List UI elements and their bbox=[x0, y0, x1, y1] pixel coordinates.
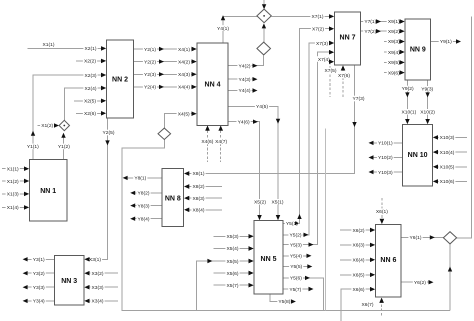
wire stub X5(3) bbox=[214, 234, 254, 241]
svg-text:X10(1): X10(1) bbox=[402, 110, 417, 116]
svg-text:NN 7: NN 7 bbox=[340, 35, 356, 42]
wire stub X3(3) bbox=[85, 284, 119, 291]
svg-text:X1(1): X1(1) bbox=[43, 42, 55, 48]
wire faint mid vertical bbox=[325, 129, 327, 311]
wire stub Y5(7) bbox=[283, 286, 314, 293]
block NN 3 bbox=[55, 256, 85, 306]
svg-text:X1(2): X1(2) bbox=[41, 123, 53, 129]
svg-text:X4(4): X4(4) bbox=[178, 85, 190, 91]
wire Y5(6) to bottom bus bbox=[283, 275, 324, 311]
wire output Y6(2) bbox=[401, 279, 433, 286]
wire Y2(3) to X4(3) bbox=[134, 72, 197, 79]
port arrows NN 10 inputs bbox=[405, 119, 438, 184]
wire stub X10(6) bbox=[433, 179, 467, 186]
svg-text:NN 4: NN 4 bbox=[205, 82, 221, 89]
node diamond C bbox=[59, 120, 69, 130]
svg-text:Y8(4): Y8(4) bbox=[138, 216, 150, 222]
wire Y6(1) to diamond F bbox=[401, 235, 443, 242]
svg-text:Y5(7): Y5(7) bbox=[289, 287, 301, 293]
svg-text:Y7(1): Y7(1) bbox=[364, 19, 376, 25]
wire stub X2(6) bbox=[76, 111, 106, 118]
wire stub X3(2) bbox=[85, 270, 119, 277]
wire stub X2(5) bbox=[74, 98, 106, 105]
wire stub X6(2) bbox=[340, 227, 375, 234]
svg-text:Y5(6): Y5(6) bbox=[290, 276, 302, 282]
port arrows NN 5 inputs bbox=[249, 215, 281, 287]
wire net from diamond D down to bottom bus bbox=[122, 140, 450, 311]
svg-text:X6(2): X6(2) bbox=[353, 228, 365, 234]
svg-text:Y4(5): Y4(5) bbox=[256, 104, 268, 110]
wire stub X9(3) bbox=[384, 39, 405, 46]
svg-text:X4(1): X4(1) bbox=[178, 47, 190, 53]
svg-text:X6(5): X6(5) bbox=[353, 273, 365, 279]
svg-text:X6(4): X6(4) bbox=[353, 258, 365, 264]
wire stub X8(2) bbox=[184, 184, 222, 191]
svg-text:X10(4): X10(4) bbox=[440, 150, 455, 156]
wire output Y9(1) bbox=[431, 39, 462, 46]
wire Y4(1) to diamond A bbox=[216, 15, 258, 43]
svg-text:Y4(2): Y4(2) bbox=[239, 64, 251, 70]
wire Y2(5) to X3(1) bbox=[85, 118, 116, 263]
svg-text:Y2(5): Y2(5) bbox=[103, 130, 115, 136]
svg-text:X7(2): X7(2) bbox=[312, 26, 324, 32]
node diamond A bbox=[257, 9, 271, 23]
svg-text:X2(1): X2(1) bbox=[85, 46, 97, 52]
svg-text:Y2(4): Y2(4) bbox=[144, 85, 156, 91]
svg-text:Y2(1): Y2(1) bbox=[144, 47, 156, 53]
port arrows NN 9 inputs bbox=[400, 19, 405, 75]
block NN 1 bbox=[30, 160, 68, 222]
svg-text:X5(7): X5(7) bbox=[227, 283, 239, 289]
wire stub X5(7) bbox=[214, 282, 254, 289]
svg-text:Y10(2): Y10(2) bbox=[378, 155, 393, 161]
wire stub X2(2) bbox=[76, 58, 106, 65]
svg-text:X9(1): X9(1) bbox=[388, 19, 400, 25]
wire stub X7(6) into NN 7 bottom bbox=[337, 66, 351, 98]
block NN 2 bbox=[107, 40, 134, 118]
svg-text:X8(3): X8(3) bbox=[193, 196, 205, 202]
wire diamond C to X2(4) bbox=[64, 85, 106, 120]
svg-text:X8(1): X8(1) bbox=[193, 171, 205, 177]
wire stub X6(4) bbox=[340, 257, 375, 264]
wire Y4(5) to X5(1) bbox=[228, 104, 285, 220]
wire input X1(3) to NN 1 bbox=[2, 191, 29, 198]
wire stub X3(4) bbox=[85, 298, 119, 305]
svg-text:Y9(1): Y9(1) bbox=[440, 39, 452, 45]
svg-text:X9(2): X9(2) bbox=[388, 29, 400, 35]
svg-text:X7(5): X7(5) bbox=[325, 68, 337, 74]
svg-text:Y9(2): Y9(2) bbox=[402, 86, 414, 92]
wire stub X6(5) bbox=[340, 272, 375, 279]
wire stub Y5(4) bbox=[283, 253, 312, 260]
block NN 6 bbox=[376, 225, 402, 298]
svg-text:Y4(6): Y4(6) bbox=[238, 120, 250, 126]
wire output Y10(1) bbox=[369, 140, 403, 147]
wire input X1(1) to NN 1 bbox=[2, 166, 29, 173]
svg-text:Y3(4): Y3(4) bbox=[33, 299, 45, 305]
svg-text:X5(6): X5(6) bbox=[227, 271, 239, 277]
svg-text:Y7(3): Y7(3) bbox=[353, 96, 365, 102]
wire stub X6(1) into NN 6 top bbox=[375, 198, 389, 224]
block NN 4 bbox=[197, 43, 228, 125]
svg-text:X2(3): X2(3) bbox=[85, 73, 97, 79]
wire stub Y5(5) bbox=[283, 264, 312, 271]
wire Y7(1) to X9(1) bbox=[361, 19, 405, 26]
svg-text:X6(1): X6(1) bbox=[376, 209, 388, 215]
svg-text:X7(1): X7(1) bbox=[312, 14, 324, 20]
wire stub Y8(2) bbox=[130, 190, 162, 197]
block NN 5 bbox=[254, 221, 283, 295]
svg-text:X8(4): X8(4) bbox=[193, 208, 205, 214]
wire stub X10(4) bbox=[433, 149, 467, 156]
wire Y7(2) to X9(2) bbox=[361, 28, 405, 35]
wire input X1(4) to NN 1 bbox=[2, 205, 29, 212]
svg-text:Y3(2): Y3(2) bbox=[33, 271, 45, 277]
wire output Y3(2) bbox=[23, 270, 55, 277]
svg-text:Y5(3): Y5(3) bbox=[290, 242, 302, 248]
svg-text:X3(2): X3(2) bbox=[92, 271, 104, 277]
wire diamond D to X4(5) bbox=[164, 111, 196, 128]
wire stub X10(3) bbox=[433, 135, 467, 142]
wire bus riser to X5(5) bbox=[197, 258, 254, 311]
wire stub Y8(3) bbox=[130, 203, 162, 210]
wire stub X4(6) bbox=[200, 126, 214, 162]
port arrows NN 7 inputs bbox=[329, 14, 345, 70]
svg-text:X9(3): X9(3) bbox=[388, 39, 400, 45]
block NN 8 bbox=[162, 169, 184, 227]
svg-text:X8(2): X8(2) bbox=[193, 184, 205, 190]
wire riser from bus into diamond F bottom bbox=[448, 244, 452, 311]
wire Y1(2) to diamond C bbox=[57, 133, 71, 160]
wire Y7(3) to X8(1) bbox=[184, 65, 365, 177]
svg-text:X1(4): X1(4) bbox=[7, 205, 19, 211]
wire Y2(2) to X4(2) bbox=[134, 59, 197, 66]
svg-text:Y2(3): Y2(3) bbox=[144, 72, 156, 78]
svg-text:X1(1): X1(1) bbox=[7, 166, 19, 172]
svg-text:X4(7): X4(7) bbox=[215, 139, 227, 145]
wire output Y10(3) bbox=[369, 169, 403, 176]
svg-text:X5(3): X5(3) bbox=[227, 234, 239, 240]
svg-text:Y8(1): Y8(1) bbox=[134, 176, 146, 182]
wire diamond A to X7(1) bbox=[271, 14, 334, 21]
wire X6(7) into NN 6 bottom bbox=[362, 298, 384, 316]
svg-text:Y5(8): Y5(8) bbox=[278, 299, 290, 305]
svg-text:X6(7): X6(7) bbox=[362, 302, 374, 308]
svg-text:X2(5): X2(5) bbox=[84, 99, 96, 105]
svg-text:NN 3: NN 3 bbox=[61, 278, 77, 285]
wire stub X5(6) bbox=[214, 270, 254, 277]
wire stub X9(4) bbox=[384, 49, 405, 56]
svg-text:Y5(5): Y5(5) bbox=[290, 264, 302, 270]
wire stub Y4(4) bbox=[228, 88, 258, 95]
node diamond D bbox=[158, 128, 171, 139]
svg-text:X9(5): X9(5) bbox=[388, 60, 400, 66]
wire stub X10(5) bbox=[433, 164, 467, 171]
wire output Y5(8) bbox=[270, 294, 296, 305]
svg-text:X10(3): X10(3) bbox=[440, 135, 455, 141]
block NN 10 bbox=[403, 125, 433, 187]
wire stub X9(5) bbox=[384, 60, 405, 67]
svg-text:X4(2): X4(2) bbox=[178, 59, 190, 65]
svg-text:NN 6: NN 6 bbox=[380, 257, 396, 264]
svg-text:X5(1): X5(1) bbox=[272, 200, 284, 206]
svg-text:Y2(2): Y2(2) bbox=[144, 59, 156, 65]
wire X6(6) riser from bottom bbox=[341, 286, 375, 321]
svg-text:X9(6): X9(6) bbox=[388, 70, 400, 76]
wire Y1(1) to X2(3) bbox=[26, 72, 106, 159]
wire Y5(3) riser to X7(4) bbox=[283, 50, 334, 248]
wire input X1(2) to NN 1 bbox=[2, 178, 29, 185]
svg-text:X10(2): X10(2) bbox=[420, 110, 435, 116]
wire Y9(2) to X10(1) bbox=[401, 80, 418, 124]
svg-text:Y3(3): Y3(3) bbox=[33, 285, 45, 291]
svg-text:X5(5): X5(5) bbox=[227, 259, 239, 265]
wire stub X9(6) bbox=[384, 70, 405, 77]
svg-text:X7(6): X7(6) bbox=[338, 73, 350, 79]
wire output Y3(3) bbox=[23, 284, 55, 291]
svg-text:NN 1: NN 1 bbox=[40, 188, 56, 195]
svg-text:Y10(3): Y10(3) bbox=[378, 170, 393, 176]
svg-text:X2(6): X2(6) bbox=[84, 111, 96, 117]
wire output Y10(2) bbox=[369, 155, 403, 162]
svg-text:X9(4): X9(4) bbox=[388, 50, 400, 56]
svg-text:Y8(2): Y8(2) bbox=[138, 191, 150, 197]
wire output Y3(1) bbox=[23, 257, 55, 264]
svg-text:X5(2): X5(2) bbox=[254, 200, 266, 206]
wire X1(2) into diamond C bbox=[38, 123, 59, 130]
wire Y9(3) to X10(2) bbox=[419, 80, 436, 124]
svg-text:NN 8: NN 8 bbox=[165, 196, 181, 203]
svg-text:X3(1): X3(1) bbox=[89, 257, 101, 263]
wire X1(1) to X2(1) bbox=[28, 42, 107, 52]
svg-text:Y4(4): Y4(4) bbox=[239, 88, 251, 94]
port arrows NN 2 inputs bbox=[101, 46, 106, 115]
port arrows NN 4 inputs bbox=[192, 47, 223, 131]
wire stub Y4(3) bbox=[228, 76, 258, 83]
svg-text:X10(5): X10(5) bbox=[440, 165, 455, 171]
port arrows NN 6 inputs bbox=[370, 219, 384, 303]
svg-text:NN 5: NN 5 bbox=[261, 256, 277, 263]
wire Y5(1) riser to X7(2) bbox=[283, 26, 334, 227]
svg-text:X4(5): X4(5) bbox=[178, 112, 190, 118]
port arrows NN 1 inputs bbox=[24, 167, 29, 210]
wire Y4(6) to X5(2) bbox=[228, 119, 267, 220]
svg-text:Y6(2): Y6(2) bbox=[414, 280, 426, 286]
svg-text:Y10(1): Y10(1) bbox=[378, 141, 393, 147]
wire stub Y8(4) bbox=[130, 216, 162, 223]
svg-text:X4(3): X4(3) bbox=[178, 72, 190, 78]
svg-text:X10(6): X10(6) bbox=[440, 179, 455, 185]
wire Y4(2) to diamond B bbox=[228, 56, 264, 70]
svg-text:NN 9: NN 9 bbox=[410, 47, 426, 54]
svg-text:Y3(1): Y3(1) bbox=[33, 257, 45, 263]
wire top feed into diamond A bbox=[262, 0, 266, 9]
port arrows NN 8 inputs bbox=[184, 171, 189, 212]
svg-text:Y5(2): Y5(2) bbox=[290, 233, 302, 239]
block NN 9 bbox=[405, 19, 431, 80]
svg-text:Y9(3): Y9(3) bbox=[421, 87, 433, 93]
wire stub X4(7) bbox=[214, 126, 228, 162]
svg-text:X6(6): X6(6) bbox=[353, 287, 365, 293]
wire stub X6(3) bbox=[340, 242, 375, 249]
wire output Y3(4) bbox=[23, 298, 55, 305]
wire stub X8(4) bbox=[184, 207, 222, 214]
svg-text:X6(3): X6(3) bbox=[353, 243, 365, 249]
svg-text:X4(6): X4(6) bbox=[201, 139, 213, 145]
wire stub X5(4) bbox=[214, 246, 254, 253]
wire Y2(1) to X4(1) bbox=[134, 46, 197, 53]
node diamond F bbox=[443, 232, 456, 244]
wire Y8(1) junction bbox=[123, 175, 162, 182]
svg-text:Y5(4): Y5(4) bbox=[290, 254, 302, 260]
wire stub X7(5) bbox=[323, 60, 337, 98]
svg-text:Y1(1): Y1(1) bbox=[27, 144, 39, 150]
wire top right vertical into diamond F right bbox=[457, 17, 472, 238]
svg-text:X5(4): X5(4) bbox=[227, 246, 239, 252]
wire stub X8(3) bbox=[184, 195, 222, 202]
svg-text:Y6(1): Y6(1) bbox=[410, 235, 422, 241]
wire Y5(2) riser to X7(3) bbox=[283, 40, 334, 238]
svg-text:Y4(3): Y4(3) bbox=[239, 77, 251, 83]
svg-text:Y8(3): Y8(3) bbox=[138, 203, 150, 209]
svg-text:X7(4): X7(4) bbox=[318, 57, 330, 63]
svg-text:Y1(2): Y1(2) bbox=[58, 144, 70, 150]
wire Y2(4) to X4(4) bbox=[134, 84, 197, 91]
svg-text:Y7(2): Y7(2) bbox=[364, 29, 376, 35]
svg-text:X2(4): X2(4) bbox=[85, 86, 97, 92]
block NN 7 bbox=[335, 12, 361, 65]
svg-text:X7(3): X7(3) bbox=[316, 41, 328, 47]
svg-text:X3(4): X3(4) bbox=[92, 299, 104, 305]
node diamond B bbox=[257, 42, 271, 55]
svg-text:X3(3): X3(3) bbox=[92, 285, 104, 291]
svg-text:Y4(1): Y4(1) bbox=[217, 26, 229, 32]
svg-text:X1(2): X1(2) bbox=[7, 179, 19, 185]
svg-text:NN 10: NN 10 bbox=[408, 152, 428, 159]
svg-text:X1(3): X1(3) bbox=[7, 192, 19, 198]
svg-text:NN 2: NN 2 bbox=[112, 77, 128, 84]
port arrows NN 3 inputs bbox=[85, 257, 90, 303]
svg-text:X2(2): X2(2) bbox=[84, 59, 96, 65]
wire diamond B to diamond A bbox=[262, 23, 266, 42]
